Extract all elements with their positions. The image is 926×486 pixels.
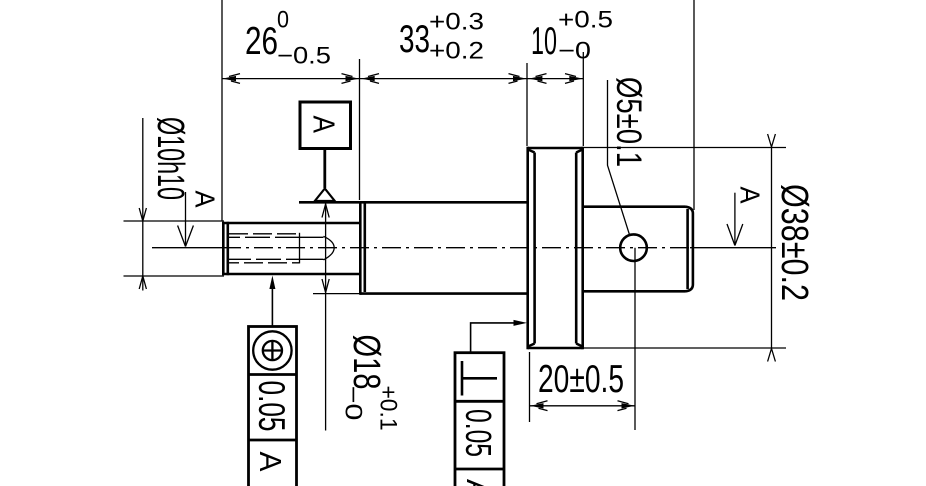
extension line left end	[221, 0, 223, 221]
svg-text:Ø38±0.2: Ø38±0.2	[773, 184, 815, 301]
svg-text:−0: −0	[340, 386, 367, 421]
flange outline (Ø38)	[528, 147, 583, 349]
datum stem	[323, 149, 326, 189]
20±0.5 dimension	[530, 352, 636, 422]
svg-text:20±0.5: 20±0.5	[538, 358, 624, 401]
shaft section 1 outline (threaded end)	[222, 222, 360, 275]
datum triangle	[315, 189, 335, 202]
svg-text:Ø5±0.1: Ø5±0.1	[609, 77, 648, 167]
extension line shaft right end	[693, 0, 695, 210]
svg-text:Ø18: Ø18	[345, 335, 387, 390]
dim text 26 0/-0.5	[245, 7, 331, 70]
dimension 10 arrowheads	[529, 74, 583, 84]
svg-text:+0.5: +0.5	[558, 7, 613, 34]
hole vertical line / 20-dim extension	[634, 248, 636, 430]
svg-text:33: 33	[399, 18, 430, 61]
dim text 33 +0.3/+0.2	[399, 9, 484, 65]
dimension 33 arrowheads	[361, 74, 527, 84]
centerline (shaft axis)	[152, 247, 776, 249]
svg-text:0.05: 0.05	[458, 409, 499, 457]
svg-text:A: A	[307, 116, 342, 134]
Ø18 bottom edge extension	[313, 293, 360, 295]
svg-text:26: 26	[245, 20, 278, 63]
dim text 10 +0.5/-0	[531, 7, 613, 65]
Ø10h10 dimension	[124, 118, 225, 291]
Ø18 dimension line	[322, 202, 329, 430]
svg-text:+0.3: +0.3	[429, 9, 484, 36]
extension line step Ø10/Ø18	[359, 59, 361, 200]
drill cone at thread end	[324, 236, 335, 260]
svg-text:A: A	[735, 187, 766, 204]
svg-text:10: 10	[531, 20, 557, 63]
perpendicularity frame leader	[471, 320, 527, 353]
Ø5±0.1 leader	[608, 80, 630, 235]
section arrow A right	[727, 193, 743, 246]
svg-text:A: A	[460, 479, 495, 486]
svg-text:−0: −0	[558, 38, 591, 65]
shaft section 4 outline (right end)	[583, 207, 693, 292]
Ø38 dimension	[584, 134, 787, 362]
top dimension line 26/33/10	[222, 78, 583, 80]
section arrow A left	[178, 192, 194, 247]
svg-text:0: 0	[277, 7, 289, 34]
svg-text:+0.1: +0.1	[375, 386, 402, 431]
svg-text:−0.5: −0.5	[277, 43, 331, 70]
cross-hole Ø5 circle	[620, 234, 647, 261]
perpendicularity feature control frame	[455, 353, 504, 486]
threaded hole hidden lines	[229, 233, 324, 264]
extension line flange left	[526, 63, 528, 146]
shaft section 2 outline (Ø18)	[299, 201, 528, 295]
datum A box	[300, 102, 351, 149]
dimension 26 arrowheads	[222, 74, 359, 84]
concentricity frame leader	[269, 276, 275, 327]
Ø18 +0.1/-0 text (rotated)	[340, 335, 402, 431]
svg-text:+0.2: +0.2	[429, 38, 484, 65]
svg-text:A: A	[190, 191, 221, 208]
concentricity feature control frame	[249, 327, 297, 486]
extension line flange right	[582, 52, 584, 146]
perpendicularity symbol (rotated ⊥)	[462, 361, 497, 396]
svg-text:Ø10h10: Ø10h10	[149, 117, 191, 200]
svg-text:A: A	[253, 452, 288, 472]
svg-text:0.05: 0.05	[251, 381, 292, 432]
concentricity symbol	[253, 331, 291, 369]
